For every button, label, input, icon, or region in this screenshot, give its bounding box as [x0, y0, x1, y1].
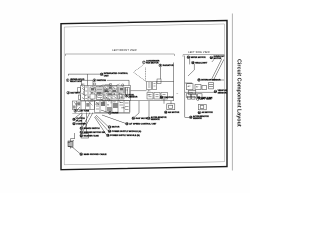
- wire: leader to starter callout: [75, 115, 83, 123]
- embedded callout rings: [91, 83, 124, 101]
- svg-text:LEFT/FRONT VIEW: LEFT/FRONT VIEW: [112, 49, 137, 52]
- callout: radiator fan motor: [159, 64, 174, 67]
- starter motor: [101, 102, 105, 106]
- callout: battery: [67, 91, 81, 94]
- callout: integrated control unit: [100, 72, 129, 77]
- radiator segment 3: [161, 93, 168, 100]
- svg-text:POWER SUPPLY MODULE (B): POWER SUPPLY MODULE (B): [110, 135, 140, 137]
- svg-text:WASHER TANK: WASHER TANK: [84, 134, 100, 137]
- sidebar rule: [231, 14, 233, 171]
- bay divider 1: [84, 86, 86, 101]
- left apron box: [78, 88, 81, 93]
- ground strap component: [68, 141, 75, 149]
- car body: windshield line: [211, 59, 221, 80]
- svg-text:BT: BT: [88, 97, 90, 99]
- wire: leader from igniter to engine cluster: [107, 80, 129, 85]
- svg-text:UNIT: UNIT: [104, 75, 110, 77]
- svg-text:SENSOR: SENSOR: [193, 118, 202, 120]
- svg-text:V6: V6: [107, 105, 109, 107]
- wire: leader to clutch callout: [75, 114, 81, 118]
- relay block a: [90, 87, 95, 92]
- left apron box lower: [78, 95, 80, 100]
- small junction boxes: [188, 96, 191, 99]
- wire: leader to air tube callout: [77, 107, 80, 110]
- wire: fender boundary line: [157, 63, 174, 101]
- callout: A/T speed control unit: [126, 122, 158, 125]
- svg-text:WIPER MOTOR: WIPER MOTOR: [191, 57, 207, 59]
- svg-text:AN MOTOR: AN MOTOR: [168, 111, 180, 114]
- callout: under-hood relay box: [66, 79, 85, 83]
- header rule (right section): [183, 55, 224, 57]
- svg-text:IGNITION: IGNITION: [97, 80, 107, 82]
- header rule (left section): [65, 54, 174, 56]
- svg-text:WASHER MOTOR SW: WASHER MOTOR SW: [84, 131, 105, 134]
- svg-text:FAN MOTOR: FAN MOTOR: [146, 62, 159, 65]
- callout: washer motor: [80, 131, 105, 134]
- callout: vehicle speed sensor: [80, 153, 107, 156]
- engine bay shading spots: [91, 87, 123, 96]
- svg-text:GAS VALVE: GAS VALVE: [136, 117, 148, 120]
- svg-text:~: ~: [176, 92, 178, 96]
- callout: brake fluid switch: [80, 127, 100, 130]
- wire: bulkhead long line: [131, 100, 174, 102]
- bottom row boxes: [186, 94, 191, 97]
- blower motor sub-box: [188, 90, 195, 94]
- callout: ABS unit label: [198, 111, 213, 114]
- callout: igniter unit: [93, 79, 106, 82]
- wire: drop to cruise actuator: [163, 99, 165, 104]
- svg-text:MOTOR: MOTOR: [112, 127, 120, 129]
- svg-text:LEFT TANK: LEFT TANK: [200, 98, 212, 101]
- lower engine tray: [95, 101, 130, 113]
- wire: cowl drop to accel sensor: [185, 95, 190, 117]
- page border frame (inner rule): [64, 24, 224, 165]
- right cluster micro labels: [188, 85, 200, 94]
- svg-text:POWER SUPPLY MODULE (A): POWER SUPPLY MODULE (A): [112, 130, 142, 133]
- callout: fan motor: [108, 126, 120, 129]
- svg-text:CT: CT: [126, 90, 128, 92]
- wire: drop pair to washer bottle: [82, 113, 87, 134]
- callout: ABS modulator: [125, 94, 138, 99]
- svg-text:MOTOR: MOTOR: [214, 58, 222, 60]
- wire: drop from bulkhead: [170, 101, 172, 104]
- wire: drop below condenser fan callout: [145, 68, 147, 82]
- wire: leader to brake switch callout: [83, 113, 91, 128]
- wire: leader to washer motor callout: [83, 113, 93, 132]
- left tray dark cells: [77, 102, 80, 105]
- svg-text:BATTERY: BATTERY: [70, 92, 80, 95]
- callout: condenser fan motor: [143, 61, 160, 65]
- svg-text:PLUG: PLUG: [76, 120, 82, 122]
- wire: fan leaders to power modules: [95, 115, 126, 135]
- callout: washer tank: [80, 134, 99, 137]
- relay block b: [90, 94, 95, 99]
- callout: blower relay: [214, 90, 227, 94]
- callout: angular sensor on hood: [198, 79, 221, 82]
- coolant tank cap: [126, 88, 128, 96]
- callout: power supply module B: [107, 134, 140, 137]
- svg-text:AN MOTOR: AN MOTOR: [202, 111, 214, 114]
- washer bottle: [81, 134, 89, 139]
- engine bay micro labels: [75, 83, 151, 110]
- left lower tray: [72, 101, 94, 109]
- tray details: [96, 103, 129, 110]
- page border frame (outer, slightly tilted scan): [61, 21, 227, 170]
- callout: horn: [109, 112, 119, 115]
- condenser unit a: [147, 82, 152, 90]
- callout: left tube (top): [196, 98, 211, 101]
- svg-text:INTERIOR SENSOR: INTERIOR SENSOR: [201, 80, 221, 82]
- engine block (dense): [104, 86, 117, 99]
- ABS control unit: [198, 104, 206, 109]
- svg-text:RADIATOR: RADIATOR: [163, 64, 174, 67]
- svg-text:L.AIR TUBE: L.AIR TUBE: [78, 110, 90, 113]
- engine bay harness scribbles: [74, 84, 130, 107]
- svg-text:SENSOR: SENSOR: [218, 92, 227, 94]
- svg-text:BRAKE SWITCH: BRAKE SWITCH: [84, 127, 101, 130]
- relay bracket: [209, 82, 214, 89]
- svg-text:HORN: HORN: [112, 113, 119, 115]
- wire: drop from ICU leader into relay box: [86, 74, 88, 85]
- fuse box pins: [97, 88, 102, 98]
- car body: hood line: [185, 82, 192, 84]
- svg-text:MT: MT: [113, 102, 115, 104]
- condenser fins: [148, 83, 166, 97]
- heater blower box: [187, 84, 193, 90]
- fan-out leader wires to lower callouts: [68, 101, 150, 154]
- callout: cruise actuator label: [164, 111, 179, 114]
- callout: power supply module A: [108, 130, 141, 133]
- cruise control actuator: [167, 104, 175, 110]
- car body: front edge: [211, 60, 224, 81]
- callout: accelerator sensor (center): [147, 116, 167, 121]
- svg-text:EN-G: EN-G: [105, 91, 110, 93]
- wire: under-tray rail: [72, 101, 130, 114]
- wire: condenser fan leader (dashed drop): [134, 64, 147, 82]
- callout: headlight: [192, 61, 208, 64]
- compressor: [107, 107, 112, 112]
- evaporator box: [195, 85, 201, 90]
- callout: L. motor: [160, 96, 174, 99]
- svg-text:FU8: FU8: [97, 94, 100, 96]
- wire: lower rail: [185, 91, 214, 93]
- wire: leader to integrated control unit: [68, 74, 100, 76]
- car body: cowl vertical: [184, 56, 186, 95]
- bay divider 2: [87, 86, 89, 101]
- wire: headlight leader: [188, 64, 194, 76]
- svg-text:A/T SPEED CONTROL UNIT: A/T SPEED CONTROL UNIT: [129, 122, 157, 125]
- hose detail marks: [82, 87, 88, 99]
- wire: top leaders: [190, 58, 214, 64]
- air cleaner box: [118, 87, 124, 93]
- engine harness squiggles: [105, 87, 116, 98]
- fuse box main: [96, 87, 103, 94]
- wire: bay to condenser link: [131, 90, 147, 92]
- wiper motor: [202, 86, 207, 90]
- wire: strap feed: [71, 133, 75, 141]
- resonator box: [118, 95, 124, 100]
- svg-text:OIL: OIL: [105, 97, 108, 99]
- radiator segment 1: [147, 93, 153, 100]
- callout: A/C clutch: [73, 118, 86, 122]
- callout: starter: [73, 122, 87, 125]
- svg-text:Circuit Component Layout: Circuit Component Layout: [236, 59, 242, 127]
- washer reservoir cap: [157, 79, 161, 84]
- wire: leader from under-hood fuse/relay box: [81, 80, 93, 85]
- engine bay outline: [81, 86, 131, 101]
- svg-text:SENSOR: SENSOR: [151, 119, 160, 121]
- wire: strap to speed sensor callout: [73, 148, 80, 154]
- wire: radiator fan leader drop: [159, 67, 161, 79]
- callout: air tube (right section): [197, 96, 213, 99]
- fuse box lower: [97, 94, 104, 100]
- callout: gas valve: [132, 117, 148, 120]
- callout: windshield washer tank: [187, 56, 206, 59]
- svg-text:L.MOTOR: L.MOTOR: [164, 97, 174, 99]
- coolant tank: [125, 88, 130, 96]
- svg-text:LEFT SIDE VIEW: LEFT SIDE VIEW: [188, 51, 210, 54]
- svg-text:MAIN GROUND CABLE: MAIN GROUND CABLE: [84, 153, 107, 156]
- callout: air intake tube: [74, 110, 90, 113]
- callout: radiator cap (top right): [210, 56, 225, 60]
- svg-text:SENSOR: SENSOR: [129, 97, 138, 99]
- svg-text:HEADLIGHT: HEADLIGHT: [195, 61, 208, 64]
- wire: leaders to gas valve / accel sensor: [135, 101, 150, 117]
- radiator segment 2: [154, 93, 160, 100]
- svg-text:STARTER: STARTER: [76, 122, 86, 125]
- air cleaner ribs: [118, 89, 124, 99]
- alternator: [113, 103, 118, 108]
- condenser unit b: [153, 82, 157, 90]
- wire: horn leader: [101, 110, 108, 113]
- svg-text:RELAY BOX: RELAY BOX: [70, 80, 83, 83]
- engine compartment cluster: [72, 79, 173, 113]
- callout: accelerator sensor (right): [189, 115, 209, 120]
